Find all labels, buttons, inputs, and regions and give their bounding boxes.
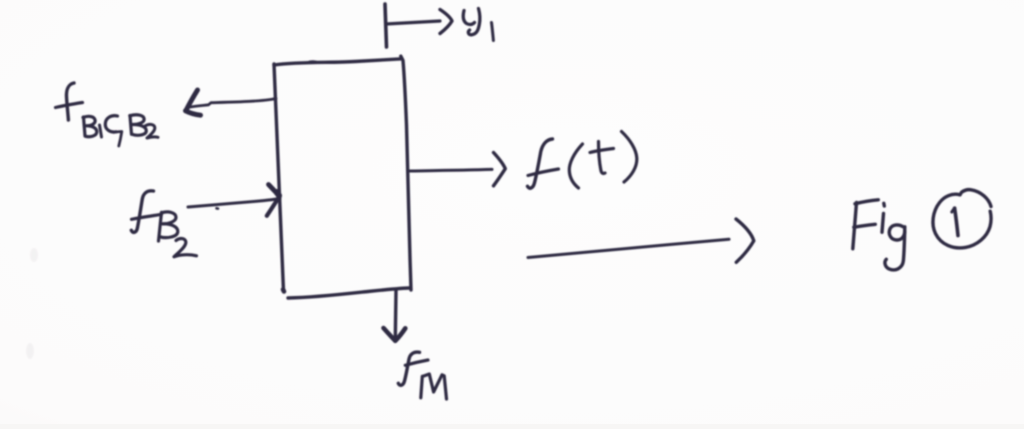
f(t) arrowhead <box>494 153 506 186</box>
label f B1 & B2 : f stem <box>66 83 74 120</box>
long arrowhead <box>736 219 754 262</box>
B2 <box>130 116 132 135</box>
2 subscript <box>174 239 197 257</box>
block right edge <box>401 56 411 290</box>
fB2 arrowhead <box>269 185 280 197</box>
f crossbar <box>56 103 83 108</box>
fB2 arrowhead ink blob <box>277 192 280 196</box>
label fM : f <box>398 352 419 385</box>
g <box>889 225 905 240</box>
fB2 arrow shaft (pointing right into block) <box>188 199 280 208</box>
) <box>622 132 637 183</box>
f(t) arrow shaft <box>410 169 492 171</box>
C (with tail) <box>105 116 117 132</box>
label fB2 : f <box>131 191 153 233</box>
fB1B2 arrowhead <box>186 90 198 111</box>
y1 arrow shaft <box>386 21 440 24</box>
ink dot under fB2 shaft <box>217 207 219 210</box>
pen joint on top edge <box>307 61 316 62</box>
label y1 <box>463 11 474 25</box>
i <box>882 203 886 206</box>
y1 displacement tick (vertical bar) <box>385 4 387 47</box>
t <box>599 142 606 174</box>
( <box>569 144 582 188</box>
B <box>159 212 162 241</box>
1 inside circle <box>955 208 958 235</box>
circled 1: circle <box>933 190 991 248</box>
fM arrow stem (downward from block bottom) <box>394 291 398 338</box>
long arrow shaft <box>528 239 729 257</box>
block left edge <box>274 64 284 291</box>
fM arrowhead <box>384 328 396 341</box>
pen stop blob at left edge end <box>283 290 284 292</box>
block (mass) rectangle top edge <box>274 59 402 65</box>
label f(t): f <box>528 139 553 188</box>
faint smudges <box>26 248 38 359</box>
B1 <box>84 117 86 136</box>
fB1B2 arrow shaft (pointing left out of block) <box>189 99 277 108</box>
y1 arrowhead <box>440 10 452 34</box>
Fig label: F <box>853 203 857 249</box>
M <box>421 374 447 399</box>
block bottom edge <box>288 288 409 298</box>
